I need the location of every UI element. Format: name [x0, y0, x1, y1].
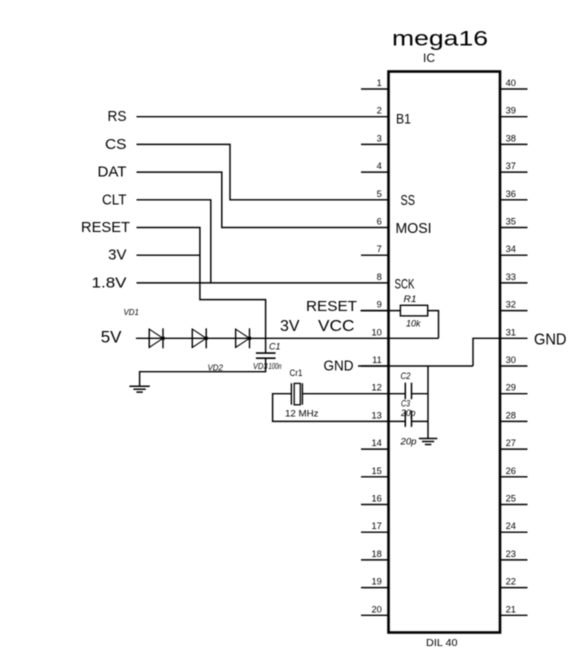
svg-text:11: 11: [372, 355, 382, 365]
wire gnd bus vertical: [427, 366, 429, 439]
svg-text:29: 29: [506, 383, 516, 393]
capacitor C2: [405, 383, 411, 400]
svg-text:VD1: VD1: [124, 307, 140, 317]
svg-text:DIL 40: DIL 40: [426, 638, 458, 649]
wire pin 11 GND across chip: [358, 365, 473, 367]
pin 32 stub: [500, 310, 528, 312]
svg-text:5V: 5V: [101, 327, 122, 346]
pin 18 stub: [361, 559, 389, 561]
svg-text:13: 13: [371, 410, 381, 420]
svg-text:IC: IC: [423, 51, 435, 65]
pin 24 stub: [500, 531, 528, 533]
svg-text:25: 25: [506, 494, 516, 504]
pin 9 stub: [361, 310, 389, 312]
svg-text:MOSI: MOSI: [396, 221, 432, 237]
svg-text:3V: 3V: [108, 247, 126, 264]
svg-text:C2: C2: [401, 371, 411, 381]
svg-text:9: 9: [377, 300, 382, 310]
ground symbol right: [419, 439, 437, 445]
svg-text:SCK: SCK: [395, 276, 415, 292]
pin 34 stub: [500, 254, 528, 256]
svg-text:100n: 100n: [269, 362, 282, 371]
svg-text:26: 26: [506, 466, 516, 476]
svg-text:RESET: RESET: [81, 219, 130, 236]
svg-text:B1: B1: [396, 111, 411, 126]
pin 4 stub: [361, 171, 389, 173]
svg-text:5: 5: [377, 189, 382, 199]
svg-text:27: 27: [506, 438, 516, 448]
pin 16 stub: [361, 504, 389, 506]
wire DAT to pin 6 MOSI: [137, 172, 389, 227]
svg-text:22: 22: [506, 577, 516, 587]
svg-text:12 MHz: 12 MHz: [285, 409, 319, 420]
pin 39 stub: [500, 116, 528, 118]
wire RESET label down to 3V node and C1: [137, 228, 266, 354]
capacitor C3: [405, 410, 411, 427]
pin 38 stub: [500, 143, 528, 145]
wire 3V label joining RESET vertical: [137, 254, 200, 256]
pin 35 stub: [500, 227, 528, 229]
svg-text:20p: 20p: [399, 436, 416, 447]
svg-text:38: 38: [506, 133, 516, 143]
svg-text:31: 31: [506, 327, 516, 337]
pin 23 stub: [500, 559, 528, 561]
svg-text:20p: 20p: [400, 408, 415, 418]
wire CS to pin 5 SS: [137, 144, 389, 199]
svg-text:DAT: DAT: [98, 164, 127, 181]
wire C1 bottom to left ground: [140, 358, 266, 386]
svg-text:RESET: RESET: [306, 299, 357, 315]
pin 37 stub: [500, 171, 528, 173]
wire 5V rail through diodes to VCC pin 10: [136, 337, 439, 339]
pin 20 stub: [361, 614, 389, 616]
svg-text:SS: SS: [401, 193, 416, 209]
svg-text:3V: 3V: [280, 318, 300, 335]
capacitor C1: [256, 353, 276, 358]
pin 29 stub: [500, 393, 528, 395]
svg-text:4: 4: [377, 161, 382, 171]
svg-text:19: 19: [371, 577, 381, 587]
svg-text:2: 2: [377, 106, 382, 116]
resistor R1: [400, 305, 427, 316]
pin 11 stub: [361, 365, 389, 367]
IC body mega16: [389, 72, 501, 633]
svg-text:Cr1: Cr1: [290, 368, 303, 379]
svg-text:CLT: CLT: [102, 191, 127, 208]
svg-text:18: 18: [371, 549, 381, 559]
pin 22 stub: [500, 587, 528, 589]
pin 28 stub: [500, 420, 528, 422]
svg-text:30: 30: [506, 355, 516, 365]
svg-text:1.8V: 1.8V: [92, 274, 127, 291]
svg-text:32: 32: [506, 300, 516, 310]
svg-text:39: 39: [506, 106, 516, 116]
svg-text:17: 17: [371, 521, 381, 531]
svg-text:7: 7: [377, 244, 382, 254]
pin 17 stub: [361, 531, 389, 533]
pin 21 stub: [500, 614, 528, 616]
svg-text:10k: 10k: [406, 319, 421, 329]
pin 19 stub: [361, 587, 389, 589]
svg-text:28: 28: [506, 410, 516, 420]
svg-text:CS: CS: [105, 136, 127, 153]
ground symbol left: [129, 386, 149, 392]
wire R1 to VCC rail: [428, 311, 439, 339]
svg-text:20: 20: [371, 604, 381, 614]
svg-text:12: 12: [371, 383, 381, 393]
svg-text:21: 21: [506, 604, 516, 614]
wire GND link up to pin 31: [473, 338, 500, 366]
svg-text:40: 40: [506, 78, 516, 88]
svg-text:35: 35: [506, 217, 516, 227]
svg-text:37: 37: [506, 161, 516, 171]
pin 14 stub: [361, 448, 389, 450]
wire pin 9 to R1: [361, 310, 401, 312]
pin 3 stub: [361, 143, 389, 145]
wire C2 to gnd bus: [412, 393, 429, 395]
pin 15 stub: [361, 476, 389, 478]
pin 30 stub: [500, 365, 528, 367]
crystal Cr1: [291, 383, 302, 405]
svg-text:15: 15: [371, 466, 381, 476]
svg-text:36: 36: [506, 189, 516, 199]
diode VD3: [236, 328, 251, 348]
wire C3 to gnd bus: [412, 420, 429, 422]
diode VD1: [149, 328, 164, 348]
diode VD2: [192, 328, 208, 348]
svg-text:RS: RS: [108, 108, 127, 125]
svg-text:VCC: VCC: [318, 318, 355, 335]
wire 1.8V to pin 8 SCK: [137, 282, 389, 284]
svg-text:C1: C1: [269, 341, 281, 351]
pin 33 stub: [500, 282, 528, 284]
svg-text:16: 16: [371, 494, 381, 504]
svg-text:14: 14: [371, 438, 381, 448]
pin 26 stub: [500, 476, 528, 478]
svg-text:3: 3: [377, 133, 382, 143]
pin 27 stub: [500, 448, 528, 450]
pin 31 stub: [500, 337, 528, 339]
svg-text:10: 10: [371, 327, 381, 337]
wire CLT down to SCK level: [137, 200, 211, 283]
svg-text:33: 33: [506, 272, 516, 282]
svg-text:GND: GND: [534, 332, 567, 349]
svg-text:1: 1: [377, 78, 382, 88]
svg-text:8: 8: [377, 272, 382, 282]
svg-text:6: 6: [377, 217, 382, 227]
svg-text:R1: R1: [404, 294, 417, 304]
svg-text:GND: GND: [324, 359, 354, 375]
pin 36 stub: [500, 199, 528, 201]
wire crystal left to pin 13: [273, 394, 406, 422]
wire pin 12 to crystal and C2: [302, 393, 405, 395]
svg-text:23: 23: [506, 549, 516, 559]
pin 25 stub: [500, 504, 528, 506]
svg-text:mega16: mega16: [392, 27, 488, 51]
svg-text:34: 34: [506, 244, 516, 254]
pin 7 stub: [361, 254, 389, 256]
pin 40 stub: [500, 88, 528, 90]
wire RS to pin 2: [137, 116, 389, 118]
pin 1 stub: [361, 88, 389, 90]
svg-text:24: 24: [506, 521, 516, 531]
